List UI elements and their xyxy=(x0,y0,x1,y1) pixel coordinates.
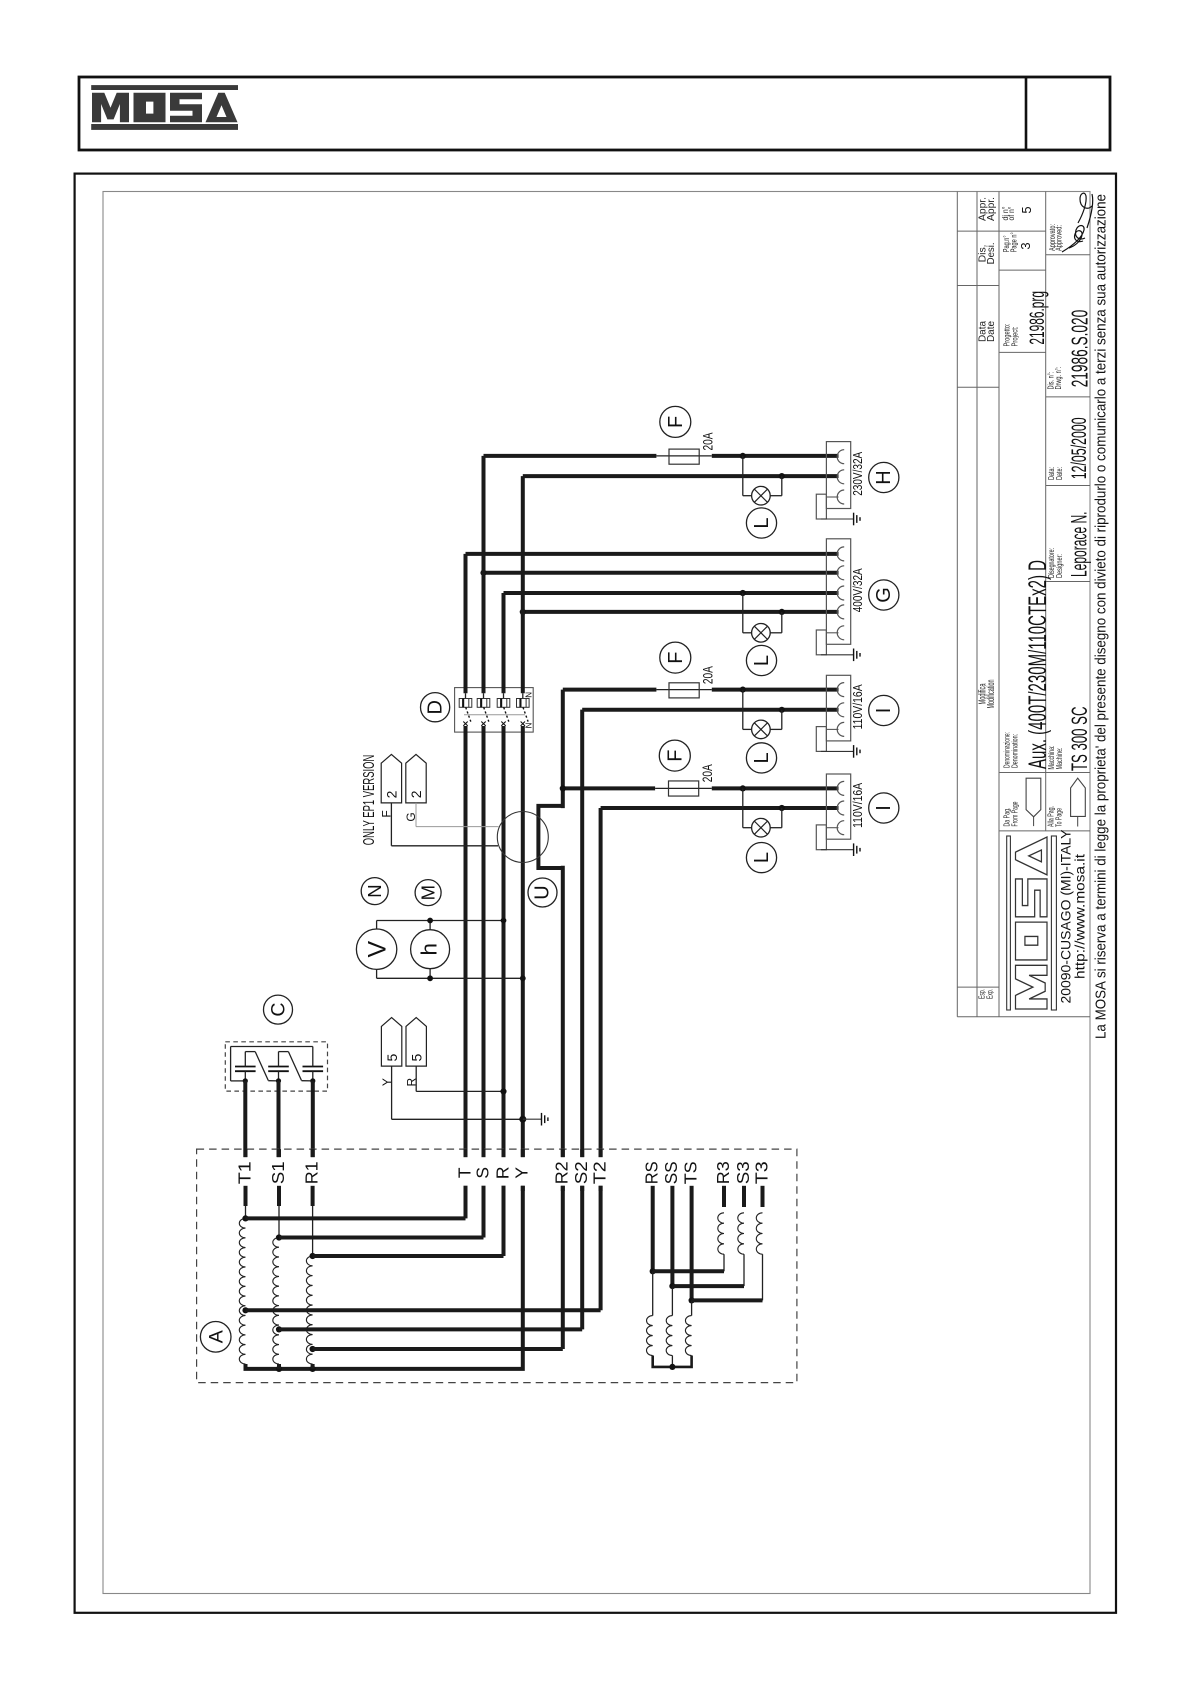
svg-text:S3: S3 xyxy=(733,1161,753,1184)
socket designator circle I xyxy=(869,695,899,725)
lamp wiring stubs xyxy=(742,593,744,633)
ground of socket G xyxy=(821,654,854,656)
svg-text:21986.prg: 21986.prg xyxy=(1026,291,1049,345)
junction of Y drop at G pin4 xyxy=(520,609,526,615)
capacitor C3 xyxy=(303,1066,324,1068)
svg-text:TS: TS xyxy=(680,1161,700,1184)
svg-text:T: T xyxy=(454,1167,474,1178)
svg-text:5: 5 xyxy=(384,1053,400,1061)
wire flag G to alternator xyxy=(415,803,417,827)
Da Pag / A Pag cell borders xyxy=(999,772,1090,774)
svg-text:Denomination:: Denomination: xyxy=(1010,734,1020,768)
auxiliary winding lead TS xyxy=(690,1191,694,1300)
riser phase T below breaker xyxy=(464,726,468,1157)
stator winding T1 xyxy=(244,1186,248,1206)
outer sheet border xyxy=(75,174,1116,1613)
star point bus to Y xyxy=(246,1186,523,1369)
ground of socket I xyxy=(821,849,854,851)
terminal R xyxy=(502,1149,506,1157)
svg-text:TS 300 SC: TS 300 SC xyxy=(1067,706,1092,771)
svg-text:R2: R2 xyxy=(552,1161,572,1184)
svg-text:Page n°: Page n° xyxy=(1009,232,1019,252)
terminal T xyxy=(464,1149,468,1157)
S2 riser (upper I row2 down to S2 terminal) xyxy=(580,710,584,1158)
svg-text:C: C xyxy=(268,1003,290,1017)
wire fuse to upper socket I pin1 xyxy=(712,688,839,692)
svg-text:20A: 20A xyxy=(701,666,716,684)
lamp (indicator light) xyxy=(752,818,771,837)
svg-text:21986.S.020: 21986.S.020 xyxy=(1067,310,1093,388)
riser phase S (breaker pole2 up to H pin1) xyxy=(482,456,486,693)
terminal R1 xyxy=(311,1149,315,1157)
wire R2 junction to fuse of lower socket I xyxy=(563,786,655,790)
svg-text:R3: R3 xyxy=(713,1161,733,1184)
svg-text:of n°: of n° xyxy=(1006,207,1016,221)
junction of S drop at G pin2 xyxy=(480,570,486,576)
lamp (indicator light) xyxy=(752,486,771,505)
svg-text:From Page: From Page xyxy=(1010,801,1020,826)
link T3 to TS xyxy=(692,1298,763,1302)
svg-text:G: G xyxy=(873,587,895,603)
page flag 2 (F wire) xyxy=(381,754,401,803)
ground of socket I xyxy=(821,750,854,752)
svg-text:L: L xyxy=(751,517,773,528)
svg-text:L: L xyxy=(751,655,773,666)
MOSA header logo xyxy=(91,85,238,130)
socket designator circle H xyxy=(869,462,899,492)
svg-text:5: 5 xyxy=(1019,206,1034,213)
svg-text:T2: T2 xyxy=(589,1161,609,1184)
svg-text:S2: S2 xyxy=(571,1161,591,1184)
breaker pole 2 xyxy=(483,693,485,698)
svg-text:F: F xyxy=(664,749,686,761)
wire flag Y to phase Y xyxy=(391,1066,393,1119)
header divider xyxy=(1025,77,1028,150)
header box xyxy=(79,77,1110,150)
designator circle U xyxy=(528,878,557,907)
svg-text:H: H xyxy=(873,470,895,484)
capacitor C2 xyxy=(268,1066,289,1068)
wire phase R to socket G pin3 xyxy=(504,591,839,595)
alternator output circle U xyxy=(497,812,548,863)
breaker linkage bar xyxy=(464,714,525,716)
breaker pole 1 xyxy=(465,693,467,698)
socket G earth tab xyxy=(816,630,826,655)
svg-text:N: N xyxy=(364,884,385,897)
title block outer lines xyxy=(956,192,958,1017)
svg-text:230V/32A: 230V/32A xyxy=(850,452,865,496)
svg-text:2: 2 xyxy=(408,790,424,798)
svg-text:http://www.mosa.it: http://www.mosa.it xyxy=(1073,854,1088,979)
fuse F xyxy=(659,740,690,771)
riser phase Y below breaker xyxy=(521,726,525,1157)
junction node on H row2 xyxy=(779,473,785,479)
exciter winding R3 xyxy=(722,1191,726,1207)
svg-text:I: I xyxy=(873,805,895,811)
svg-text:110V/16A: 110V/16A xyxy=(850,783,865,828)
alternator block A dashed enclosure xyxy=(197,1149,797,1383)
svg-text:N: N xyxy=(525,692,534,698)
suppressor block C dashed enclosure xyxy=(225,1042,327,1091)
wire phase S to fuse of socket H xyxy=(484,454,657,458)
MOSA outline logo in title block xyxy=(1007,836,1057,1010)
inner drawing frame xyxy=(103,192,1090,1594)
socket I earth tab xyxy=(816,825,826,850)
ground of socket H xyxy=(821,518,854,520)
T2 riser (lower I row2 down to T2 terminal) xyxy=(599,808,603,1157)
svg-text:I: I xyxy=(873,708,895,714)
svg-text:F: F xyxy=(665,416,687,428)
meter top bus to phase R xyxy=(376,921,378,930)
svg-text:3: 3 xyxy=(1018,242,1033,249)
wire phase Y/N to socket H pin2 xyxy=(523,474,839,478)
fuse F xyxy=(660,642,691,673)
svg-text:S: S xyxy=(472,1167,492,1179)
svg-text:M: M xyxy=(418,885,439,900)
circuit breaker D enclosure xyxy=(455,688,534,733)
riser phase R (breaker pole3 up to G pin3) xyxy=(502,593,506,693)
cell dividers D-E column xyxy=(1046,254,1090,256)
link S3 to SS xyxy=(672,1284,744,1288)
svg-text:20A: 20A xyxy=(700,764,715,782)
svg-text:F: F xyxy=(665,651,687,663)
lamp wiring stubs xyxy=(742,456,744,496)
hour meter h xyxy=(411,930,450,969)
terminal S1 xyxy=(277,1149,281,1157)
breaker pole 3 xyxy=(503,693,505,698)
wire T2 riser to lower socket I pin2 xyxy=(601,806,839,810)
designator circle A xyxy=(200,1322,231,1353)
svg-text:Machine:: Machine: xyxy=(1054,748,1064,770)
designator circle M xyxy=(415,880,441,906)
svg-text:ONLY EP1 VERSION: ONLY EP1 VERSION xyxy=(361,755,378,846)
junction + earth tap on phase Y xyxy=(519,1116,526,1123)
R2 riser: corner at upper I row1, jog around U circle, down to R2 terminal xyxy=(561,690,565,809)
svg-text:L: L xyxy=(751,852,773,863)
voltmeter V xyxy=(356,929,396,969)
title block bottom boundary xyxy=(957,1016,1090,1018)
svg-text:L: L xyxy=(751,752,773,763)
svg-text:110V/16A: 110V/16A xyxy=(850,684,865,729)
svg-text:Project:: Project: xyxy=(1010,327,1020,347)
fuse F xyxy=(660,406,691,437)
junction node upper I row1 xyxy=(740,687,746,693)
svg-text:Drwg. n°:: Drwg. n°: xyxy=(1053,367,1063,390)
meter bottom bus to phase Y xyxy=(376,969,378,978)
wire phase T to socket G pin1 xyxy=(466,552,839,556)
wire fuse to lower socket I pin1 xyxy=(712,786,839,790)
breaker designator circle D xyxy=(421,693,450,722)
winding tap bus T xyxy=(246,1216,466,1220)
svg-text:T1: T1 xyxy=(234,1161,254,1184)
socket H body xyxy=(826,442,850,509)
svg-text:400V/32A: 400V/32A xyxy=(850,568,865,612)
lamp (indicator light) xyxy=(752,720,771,739)
svg-text:Y: Y xyxy=(512,1167,532,1179)
lamp designator circle L xyxy=(746,743,776,773)
socket I body xyxy=(826,774,850,839)
svg-text:Date: Date xyxy=(986,321,997,342)
terminal T1 xyxy=(244,1149,248,1157)
winding mid-tap bus to R2 xyxy=(313,1347,563,1351)
svg-text:20090-CUSAGO (MI)-ITALY: 20090-CUSAGO (MI)-ITALY xyxy=(1059,830,1074,1004)
svg-text:Leporace N.: Leporace N. xyxy=(1067,512,1092,578)
svg-text:S1: S1 xyxy=(268,1161,288,1184)
svg-text:U: U xyxy=(532,885,554,899)
breaker pole 4 xyxy=(522,693,524,698)
svg-text:12/05/2000: 12/05/2000 xyxy=(1068,417,1091,479)
svg-text:Designer:: Designer: xyxy=(1054,554,1064,578)
svg-text:20A: 20A xyxy=(701,432,716,450)
auxiliary winding lead RS xyxy=(651,1191,655,1271)
page flag 5 (R wire) xyxy=(406,1018,426,1067)
exciter winding T3 xyxy=(761,1191,765,1207)
svg-text:RS: RS xyxy=(642,1161,662,1184)
lamp designator circle L xyxy=(746,645,776,675)
terminal R2 xyxy=(561,1149,565,1157)
capacitor C1 xyxy=(235,1066,256,1068)
junction node lower I row2 xyxy=(779,805,785,811)
junction flag R on phase R xyxy=(500,1088,506,1094)
stator winding R1 xyxy=(311,1186,315,1206)
cell dividers C-D column xyxy=(999,269,1046,271)
exciter winding S3 xyxy=(742,1191,746,1207)
revision strip dividers xyxy=(957,230,1045,232)
terminal Y xyxy=(521,1149,525,1157)
svg-text:SS: SS xyxy=(661,1161,681,1184)
winding tap bus R xyxy=(313,1254,504,1258)
riser phase T (breaker pole1 up to G pin1) xyxy=(464,554,468,693)
svg-text:N: N xyxy=(525,722,534,728)
approver signature scribble xyxy=(1062,193,1093,252)
wire phase Y to socket G pin4 xyxy=(523,610,839,614)
svg-text:Modification: Modification xyxy=(986,680,997,709)
junction node lower I row1 xyxy=(740,785,746,791)
socket H earth tab xyxy=(816,494,826,519)
svg-text:A: A xyxy=(205,1330,227,1343)
svg-text:V: V xyxy=(364,941,392,958)
junction node upper I row2 xyxy=(779,707,785,713)
riser phase R below breaker xyxy=(502,726,506,1157)
riser phase S below breaker xyxy=(482,726,486,1157)
svg-text:Desi.: Desi. xyxy=(986,242,997,264)
page flag 2 (G wire) xyxy=(406,754,426,803)
socket designator circle G xyxy=(869,580,899,610)
svg-text:Appr.: Appr. xyxy=(986,197,997,221)
terminal T2 xyxy=(599,1149,603,1157)
winding tap bus S xyxy=(279,1236,484,1240)
svg-text:T3: T3 xyxy=(751,1161,771,1184)
wire flag F to alternator xyxy=(390,803,392,846)
svg-text:5: 5 xyxy=(408,1053,424,1061)
designator circle N xyxy=(361,878,388,905)
lamp (indicator light) xyxy=(752,624,771,643)
terminal S xyxy=(482,1149,486,1157)
wire R2 riser to fuse of upper socket I xyxy=(563,688,657,692)
lamp wiring stubs xyxy=(742,690,744,730)
leads from block C to T1 S1 R1 xyxy=(243,1081,247,1157)
auxiliary winding lead SS xyxy=(670,1191,674,1286)
aux winding star bus xyxy=(653,1356,692,1367)
stator winding S1 xyxy=(277,1186,281,1206)
winding mid-tap bus to S2 xyxy=(279,1327,582,1331)
socket I body xyxy=(826,675,850,741)
svg-text:Approved:: Approved: xyxy=(1054,225,1064,251)
junction R2 feeds lower I fuse xyxy=(560,785,566,791)
svg-text:R1: R1 xyxy=(301,1161,321,1184)
wire fuse to socket H pin1 xyxy=(712,454,839,458)
socket designator circle I xyxy=(869,793,899,823)
page flag 5 (Y wire) xyxy=(381,1018,401,1067)
svg-text:Date:: Date: xyxy=(1054,467,1064,480)
svg-text:D: D xyxy=(424,700,446,714)
socket I earth tab xyxy=(816,727,826,752)
svg-text:To Page: To Page xyxy=(1054,808,1064,827)
junction node on H row1 xyxy=(740,453,746,459)
wire S2 riser to upper socket I pin2 xyxy=(582,708,838,712)
svg-text:2: 2 xyxy=(384,790,400,798)
designator circle C xyxy=(264,995,293,1024)
terminal S2 xyxy=(580,1149,584,1157)
lamp designator circle L xyxy=(746,843,776,873)
lamp designator circle L xyxy=(746,508,776,538)
socket G body xyxy=(826,539,850,645)
svg-text:h: h xyxy=(417,943,442,956)
capacitor loop bus xyxy=(231,1046,313,1048)
riser phase Y (breaker pole4 up to H pin2) xyxy=(521,476,525,693)
junction node on G row3 xyxy=(740,590,746,596)
wire flag R to phase R xyxy=(415,1066,417,1091)
svg-text:La MOSA si riserva a termini d: La MOSA si riserva a termini di legge la… xyxy=(1093,194,1110,1039)
junction node on G row4 xyxy=(779,609,785,615)
lamp wiring stubs xyxy=(742,788,744,827)
svg-text:R: R xyxy=(492,1166,512,1179)
link R3 to RS xyxy=(653,1269,724,1273)
winding mid-tap bus to T2 xyxy=(246,1308,601,1312)
svg-text:Aux. (400T/230M/110CTEx2) D: Aux. (400T/230M/110CTEx2) D xyxy=(1024,560,1052,769)
wire phase S to socket G pin2 xyxy=(484,571,839,575)
svg-text:Exp.: Exp. xyxy=(985,989,995,999)
